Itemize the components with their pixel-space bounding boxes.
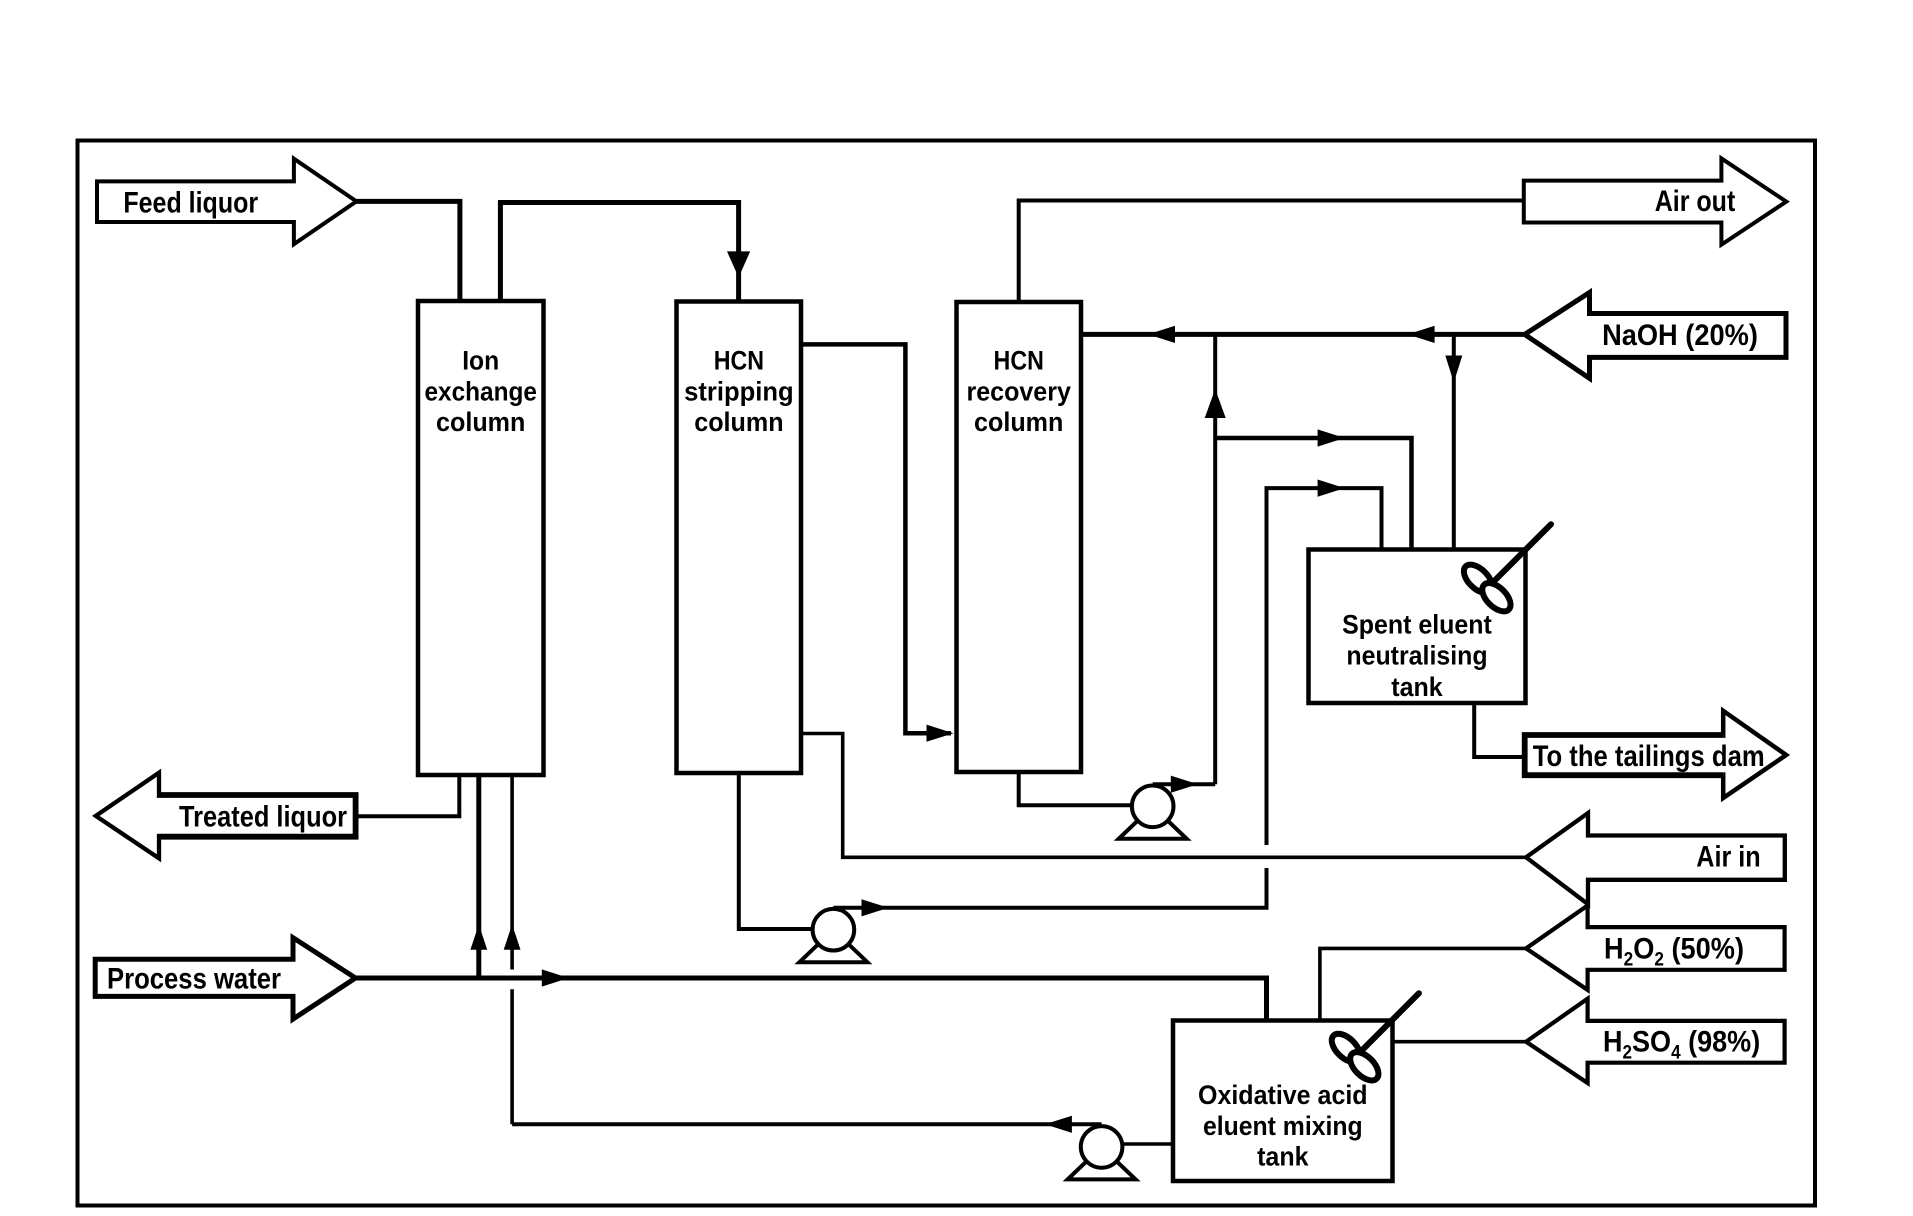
svg-text:Air in: Air in xyxy=(1696,841,1760,874)
svg-text:column: column xyxy=(974,407,1063,437)
svg-text:Treated liquor: Treated liquor xyxy=(179,801,347,834)
svg-text:exchange: exchange xyxy=(424,376,537,406)
spent eluent neutralising tank xyxy=(1309,550,1526,704)
wire: oxidative acid pump outlet line to ion exchange column xyxy=(512,1122,1102,1126)
svg-text:column: column xyxy=(436,407,525,437)
svg-text:recovery: recovery xyxy=(967,376,1071,406)
wire: recovery pump outlet xyxy=(1153,782,1216,786)
arrowhead up on recovery pump riser xyxy=(1205,389,1226,418)
arrowhead left on NaOH line near column xyxy=(1148,326,1175,343)
svg-text:Feed liquor: Feed liquor xyxy=(123,186,258,219)
arrowhead up on eluent feed xyxy=(504,924,521,949)
To the tailings dam arrow xyxy=(1525,711,1787,798)
wire: Process water line to oxidative acid tank xyxy=(356,978,1267,1021)
arrowhead left on oxidative acid pump outlet xyxy=(1045,1116,1072,1133)
HCN stripping column xyxy=(677,302,802,774)
pump P2 (HCN recovery bottoms) xyxy=(1119,786,1187,839)
arrowhead left on NaOH line mid xyxy=(1408,326,1435,343)
ion exchange column xyxy=(418,301,544,775)
wire: eluent feed up into ion exchange column xyxy=(510,775,514,970)
arrowhead right on recovery pump outlet xyxy=(1171,776,1198,793)
wire: H2O2 line to oxidative acid tank xyxy=(1320,948,1526,1020)
oxidative acid eluent mixing tank xyxy=(1173,1021,1393,1182)
svg-text:neutralising: neutralising xyxy=(1346,641,1487,671)
svg-text:Process water: Process water xyxy=(107,962,281,995)
H2SO4 (98%) inlet arrow xyxy=(1526,999,1785,1083)
svg-text:HCN: HCN xyxy=(714,346,764,376)
wire: HCN stripping overhead to HCN recovery column xyxy=(801,344,951,733)
wire: Air in line to HCN stripping column xyxy=(801,734,1526,858)
svg-text:Ion: Ion xyxy=(462,346,499,376)
wire: riser branch to spent eluent tank (upper) xyxy=(1215,438,1411,550)
svg-text:stripping: stripping xyxy=(684,376,794,406)
H2O2 (50%) inlet arrow xyxy=(1526,906,1785,990)
wire: oxidative acid pump inlet xyxy=(1122,1142,1173,1146)
arrowhead right on stripping pump outlet xyxy=(862,899,889,916)
svg-text:Air out: Air out xyxy=(1655,185,1736,218)
wire: recovery pump riser to NaOH line xyxy=(1213,334,1217,784)
arrowhead up on process water branch xyxy=(470,924,487,949)
agitator of oxidative acid tank xyxy=(1327,993,1419,1085)
svg-text:NaOH (20%): NaOH (20%) xyxy=(1602,319,1758,352)
wire: feed liquor line to ion exchange column top xyxy=(356,201,460,301)
wire: H2SO4 line to oxidative acid tank xyxy=(1393,1040,1527,1044)
wire: process water branch up into ion exchange column xyxy=(476,775,481,978)
wire: NaOH line into HCN recovery column xyxy=(1081,332,1525,337)
Feed liquor inlet arrow xyxy=(97,159,356,245)
HCN recovery column xyxy=(957,302,1082,772)
wire: HCN stripping column bottoms to pump xyxy=(739,773,813,929)
pump P1 (HCN stripping bottoms) xyxy=(799,909,867,962)
wire: HCN recovery overhead to Air out xyxy=(1019,201,1524,303)
arrowhead down into HCN stripping column xyxy=(727,251,750,277)
svg-text:column: column xyxy=(694,407,783,437)
NaOH (20%) inlet arrow xyxy=(1525,293,1786,379)
arrowhead down on NaOH branch xyxy=(1445,356,1462,383)
wire: NaOH branch down to spent eluent tank xyxy=(1452,334,1456,549)
Process water inlet arrow xyxy=(95,938,355,1019)
wire: stripping pump discharge to spent eluent tank (lower branch) xyxy=(833,868,1266,908)
arrowhead right into HCN recovery column xyxy=(927,725,954,742)
svg-text:Oxidative acid: Oxidative acid xyxy=(1198,1080,1368,1110)
Air in arrow xyxy=(1526,813,1785,904)
svg-text:Spent eluent: Spent eluent xyxy=(1342,610,1492,640)
Treated liquor outlet arrow xyxy=(96,773,356,859)
arrowhead right on upper branch xyxy=(1318,429,1345,446)
svg-text:tank: tank xyxy=(1257,1142,1309,1172)
agitator of spent eluent tank xyxy=(1459,524,1551,616)
Air out arrow xyxy=(1524,158,1787,244)
svg-text:tank: tank xyxy=(1391,672,1443,702)
wire: ion exchange bottoms to Treated liquor xyxy=(356,775,460,816)
svg-text:eluent mixing: eluent mixing xyxy=(1203,1111,1363,1141)
svg-text:To the tailings dam: To the tailings dam xyxy=(1533,740,1765,773)
wire: spent eluent tank outlet to tailings dam xyxy=(1474,703,1525,757)
arrowhead right on process water line xyxy=(542,969,569,986)
outer frame border xyxy=(78,141,1816,1206)
arrowhead right on lower branch xyxy=(1318,480,1345,497)
pump P3 (oxidative acid eluent) xyxy=(1068,1126,1136,1179)
wire: ion exchange overhead to HCN stripping column top xyxy=(500,203,738,302)
wire: HCN recovery column bottoms to pump xyxy=(1019,772,1132,805)
svg-text:HCN: HCN xyxy=(994,346,1044,376)
